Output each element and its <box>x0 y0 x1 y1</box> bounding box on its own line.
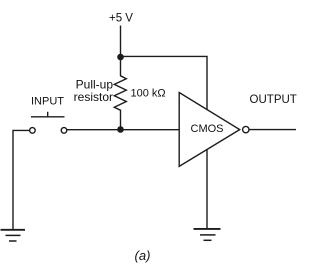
ground (gate) <box>194 229 221 240</box>
switch terminal left <box>30 128 36 134</box>
pushbutton switch S1 actuator bar <box>31 116 65 118</box>
inversion bubble <box>243 126 249 132</box>
svg-text:OUTPUT: OUTPUT <box>250 94 297 106</box>
svg-text:CMOS: CMOS <box>191 123 224 135</box>
svg-text:resistor: resistor <box>74 90 113 104</box>
wire input line from switch to gate <box>67 129 180 131</box>
wire top rail to gate power <box>121 56 208 109</box>
svg-text:100 kΩ: 100 kΩ <box>131 87 166 99</box>
wire gate to ground <box>206 150 208 230</box>
svg-text:(a): (a) <box>135 248 151 263</box>
resistor R1 100 kohm zigzag <box>114 57 126 130</box>
ground (left) <box>1 230 26 241</box>
pushbutton switch S1 stem <box>47 112 49 117</box>
op-amp style gate U1 CMOS triangle <box>179 93 240 167</box>
node junction dot top of resistor <box>117 54 124 61</box>
svg-text:INPUT: INPUT <box>31 96 64 108</box>
node junction dot bottom of resistor <box>117 126 124 133</box>
wire output <box>249 129 296 131</box>
svg-text:+5 V: +5 V <box>109 12 133 24</box>
wire switch to ground <box>13 130 30 229</box>
wire from +5V down to node <box>120 26 122 58</box>
switch terminal right <box>61 128 67 134</box>
